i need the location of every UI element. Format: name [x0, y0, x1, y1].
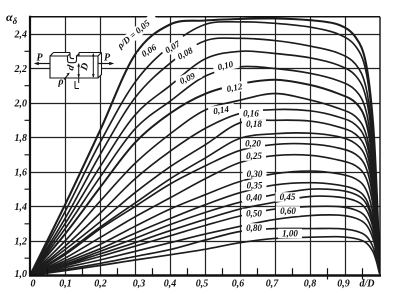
curve label 0,09: [175, 68, 203, 88]
svg-text:0,25: 0,25: [246, 151, 262, 161]
svg-text:0,20: 0,20: [245, 139, 261, 149]
svg-text:0,7: 0,7: [266, 279, 280, 290]
svg-text:ρ: ρ: [57, 77, 63, 88]
curve label 0,10: [212, 58, 240, 74]
curve rho/D=0,35: [30, 183, 380, 276]
svg-text:1,6: 1,6: [15, 168, 28, 179]
curve rho/D=0,16: [30, 120, 380, 275]
curve label 0,50: [242, 209, 266, 219]
svg-text:1,8: 1,8: [15, 133, 28, 144]
dimension D: [92, 54, 94, 77]
curve label 0,20: [241, 139, 265, 149]
bar top face: [50, 53, 102, 57]
curve rho/D=0,25: [30, 155, 380, 276]
svg-text:0,3: 0,3: [133, 279, 146, 290]
notch depth leader: [75, 81, 79, 89]
curve label 0,30: [243, 169, 267, 179]
curve label 0,18: [242, 119, 266, 129]
curve label 0,12: [221, 80, 248, 95]
curve label 0,35: [243, 181, 267, 191]
curve rho/D=0,14: [30, 109, 380, 275]
svg-text:0,40: 0,40: [246, 193, 262, 203]
curve rho/D=0,30: [30, 171, 380, 275]
svg-text:0: 0: [31, 279, 36, 290]
svg-text:0,8: 0,8: [304, 279, 317, 290]
svg-text:0,35: 0,35: [247, 181, 263, 191]
curve label 0,80: [242, 223, 266, 233]
curve label 0,60: [276, 206, 300, 216]
curve label 0,16: [239, 109, 263, 119]
svg-text:1,2: 1,2: [15, 237, 28, 248]
curve rho/D=0,12: [30, 94, 380, 276]
curve rho/D=0,60: [30, 215, 380, 276]
curve rho/D=0,40: [30, 189, 380, 276]
svg-text:0,50: 0,50: [246, 209, 262, 219]
bar right face: [98, 53, 102, 79]
curve rho/D=0,06: [30, 22, 380, 276]
force P left: [36, 63, 51, 65]
curve rho/D=0,05: [30, 18, 380, 275]
inset white backdrop: [50, 52, 103, 79]
svg-text:2,4: 2,4: [14, 30, 28, 41]
svg-text:0,9: 0,9: [337, 279, 350, 290]
svg-text:2,2: 2,2: [14, 64, 28, 75]
svg-text:2,0: 2,0: [14, 99, 28, 110]
curve label 0,45: [276, 192, 300, 202]
curve rho/D=0,09: [30, 66, 380, 275]
curve label 1,00: [278, 229, 302, 239]
right border: [379, 17, 381, 276]
notch back edges: [68, 53, 80, 59]
curve rho/D=0,08: [30, 51, 380, 275]
svg-text:0,16: 0,16: [243, 109, 259, 119]
curve rho/D=0,45: [30, 196, 380, 275]
y minor ticks: [25, 51, 31, 258]
curve label 0,06: [137, 39, 164, 62]
curve label rho/D = 0,05: [112, 13, 159, 55]
svg-text:0,4: 0,4: [164, 279, 177, 290]
y-axis: [29, 16, 31, 277]
svg-text:0,2: 0,2: [94, 279, 107, 290]
dimension d: [78, 64, 80, 83]
svg-text:0,18: 0,18: [246, 119, 262, 129]
svg-text:0,60: 0,60: [280, 206, 296, 216]
curve rho/D=0,20: [30, 144, 380, 276]
curve label 0,14: [208, 103, 235, 117]
curve rho/D=0,10: [30, 80, 380, 276]
curve rho/D=0,07: [30, 38, 380, 275]
svg-text:1,00: 1,00: [282, 229, 298, 239]
svg-text:1,4: 1,4: [15, 202, 28, 213]
curve label 0,08: [173, 42, 201, 63]
svg-text:P: P: [36, 53, 43, 64]
vertical gridlines: [66, 17, 346, 276]
x-axis: [29, 274, 381, 276]
bar front face with notch: [50, 56, 98, 78]
svg-text:0,80: 0,80: [246, 223, 262, 233]
svg-text:0,30: 0,30: [247, 169, 263, 179]
curve rho/D=0,18: [30, 133, 380, 276]
x minor ticks: [48, 268, 363, 279]
curve label 0,40: [242, 193, 266, 203]
svg-text:P: P: [104, 53, 111, 64]
curve label 0,07: [160, 36, 187, 58]
svg-text:0,1: 0,1: [59, 279, 72, 290]
svg-text:d/D: d/D: [360, 279, 375, 290]
curve rho/D=0,80: [30, 228, 380, 275]
curve rho/D=1,00: [30, 237, 380, 276]
curve label 0,25: [242, 151, 266, 161]
horizontal gridlines: [30, 35, 380, 242]
svg-text:0,45: 0,45: [280, 192, 296, 202]
curve rho/D=0,50: [30, 206, 380, 275]
rho label + leader: [64, 74, 69, 80]
top border: [30, 16, 380, 18]
svg-text:0,5: 0,5: [196, 279, 209, 290]
force P right: [98, 63, 113, 65]
svg-text:1,0: 1,0: [15, 269, 28, 280]
svg-text:0,6: 0,6: [232, 279, 245, 290]
